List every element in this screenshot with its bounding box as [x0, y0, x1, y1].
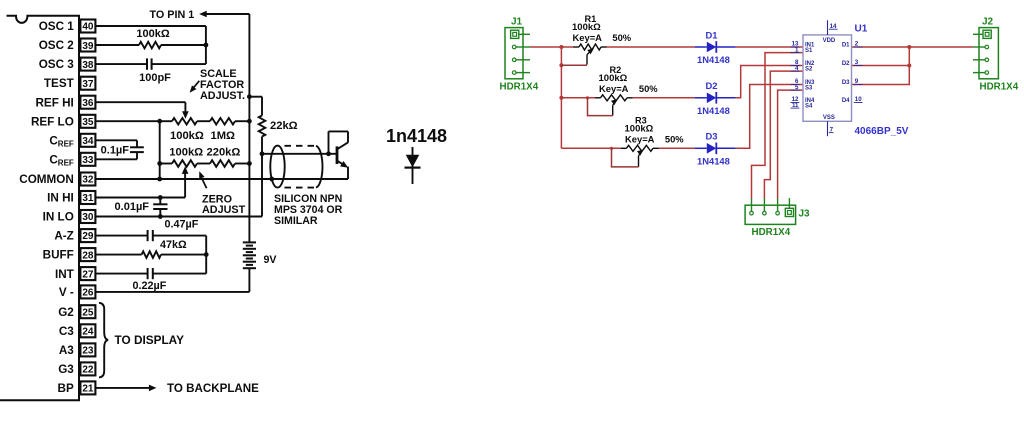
wire U1 D3 output riser [852, 66, 910, 85]
pin 21 box and label BP [58, 381, 96, 395]
svg-text:BP: BP [58, 382, 74, 395]
svg-text:4066BP_5V: 4066BP_5V [855, 126, 909, 137]
svg-text:A-Z: A-Z [54, 230, 73, 243]
svg-text:C3: C3 [59, 325, 74, 338]
svg-text:0.01µF: 0.01µF [115, 201, 150, 213]
junction 22k/cable-top/IN LO [260, 151, 265, 156]
svg-text:0.1µF: 0.1µF [101, 145, 130, 157]
svg-text:28: 28 [82, 250, 94, 261]
potentiometer row 2: 100k + 220k (zero adjust) [160, 146, 250, 166]
wire R1 to D1 [607, 46, 695, 48]
junction COMMON on shield ellipse [269, 177, 274, 182]
svg-text:Key=A 50%: Key=A 50% [573, 32, 632, 43]
svg-text:D4: D4 [842, 98, 850, 104]
wire rail corner to R3 [561, 147, 621, 149]
svg-text:36: 36 [82, 98, 94, 109]
svg-text:D1: D1 [842, 42, 850, 48]
pin 23 box and label A3 [59, 343, 96, 357]
svg-text:TO PIN 1: TO PIN 1 [150, 9, 195, 21]
resistor 100k (between OSC1/OSC2) [96, 28, 206, 48]
svg-text:ADJUST: ADJUST [202, 204, 246, 216]
cable top wire (to transistor base) [262, 153, 337, 155]
connector J2 HDR1X4 [973, 16, 1019, 92]
wire D2 to U1 IN2 [736, 66, 803, 98]
REF HI wiper arrow (scale adjust) [96, 102, 189, 119]
junction rail/pot row1 [247, 119, 252, 124]
IN LO wire to 22k riser [96, 154, 262, 217]
svg-text:0.22µF: 0.22µF [133, 280, 167, 292]
svg-text:Key=A 50%: Key=A 50% [625, 133, 684, 144]
svg-text:A3: A3 [59, 344, 74, 357]
junction rail/22k jog [247, 94, 252, 99]
pin 35 box and label REF LO [31, 115, 95, 129]
svg-text:34: 34 [82, 136, 94, 147]
svg-text:VSS: VSS [823, 115, 835, 121]
svg-text:1n4148: 1n4148 [386, 126, 447, 146]
red rail J1 node [560, 47, 562, 148]
pin 24 box and label C3 [59, 324, 96, 338]
svg-text:D2: D2 [842, 61, 850, 67]
pin 22 box and label G3 [58, 362, 95, 376]
TO DISPLAY brace [99, 303, 184, 378]
junction left column/row2 [157, 161, 162, 166]
svg-text:40: 40 [82, 22, 94, 33]
svg-text:G3: G3 [58, 363, 74, 376]
pin 39 box and label OSC 2 [39, 39, 96, 53]
svg-text:0.47µF: 0.47µF [165, 218, 199, 230]
wire D3 to U1 IN3 [736, 85, 803, 149]
wire U1 S2 to J3 pin2 [764, 71, 803, 198]
svg-text:IN HI: IN HI [47, 192, 74, 205]
svg-text:35: 35 [82, 117, 94, 128]
svg-text:G2: G2 [58, 306, 74, 319]
TO PIN 1 arrow and label [150, 9, 250, 21]
capacitor 0.01uF (IN HI / IN LO) [115, 198, 168, 217]
22k branch jog from rail [249, 97, 262, 116]
diode D2 1N4148 [695, 80, 736, 116]
svg-text:REF LO: REF LO [31, 115, 74, 128]
junction 0.01uF bottom [158, 214, 163, 219]
COMMON wire (pin 32 to transistor emitter) [96, 178, 348, 180]
pin 29 box and label A-Z [54, 229, 95, 243]
svg-text:26: 26 [82, 288, 94, 299]
svg-text:30: 30 [82, 212, 94, 223]
junction rail/pot row2 [247, 161, 252, 166]
wire R3 to D3 [659, 147, 695, 149]
svg-text:25: 25 [82, 307, 94, 318]
junction R3 U-wire [610, 147, 613, 150]
svg-text:TO DISPLAY: TO DISPLAY [115, 333, 185, 347]
svg-text:33: 33 [82, 155, 94, 166]
transistor Q1 (diode-connected NPN) [326, 131, 348, 179]
IC body (DVM chip, pins 21-40) [0, 16, 79, 401]
pin 30 box and label IN LO [43, 210, 96, 224]
svg-text:9V: 9V [264, 254, 277, 266]
shield cylinder (dashed) around cable [270, 146, 322, 188]
svg-text:J3: J3 [799, 209, 811, 220]
pin 33 box and label CREF [49, 153, 95, 168]
svg-text:39: 39 [82, 41, 94, 52]
wire U1 D1 output to J2 pin2 [852, 46, 974, 48]
junction R2 U-wire [586, 96, 589, 99]
svg-text:U1: U1 [855, 24, 868, 35]
svg-text:S4: S4 [805, 104, 813, 110]
zero adjust pointer arrow [199, 171, 206, 188]
svg-text:Key=A 50%: Key=A 50% [599, 83, 658, 94]
svg-text:OSC 2: OSC 2 [39, 39, 75, 52]
svg-text:S1: S1 [805, 48, 813, 54]
svg-text:TO BACKPLANE: TO BACKPLANE [167, 382, 259, 395]
wire pin 40 to vertical junction [96, 26, 206, 64]
svg-text:HDR1X4: HDR1X4 [980, 82, 1019, 93]
svg-text:D3: D3 [706, 131, 718, 142]
pin 34 box and label CREF [49, 134, 95, 149]
svg-text:OSC 1: OSC 1 [39, 20, 75, 33]
wire R2 to D2 [633, 97, 695, 99]
wire D1 to U1 IN1 [736, 46, 803, 48]
svg-text:100kΩ: 100kΩ [170, 130, 204, 142]
svg-text:COMMON: COMMON [19, 173, 74, 186]
capacitor 0.47uF (A-Z) [96, 218, 207, 241]
svg-text:REF HI: REF HI [35, 96, 73, 109]
junction D-outputs mid [907, 64, 911, 68]
resistor 47k (BUFF) [96, 239, 207, 258]
pin 37 box and label TEST [44, 77, 95, 91]
svg-text:HDR1X4: HDR1X4 [752, 227, 791, 238]
scale factor pointer arrow [190, 81, 200, 93]
connector J1 HDR1X4 [500, 16, 539, 92]
R3 wiper U-wire [612, 148, 639, 167]
svg-text:1N4148: 1N4148 [697, 105, 730, 116]
svg-text:BUFF: BUFF [43, 249, 74, 262]
svg-text:TEST: TEST [44, 77, 75, 90]
pin 27 box and label INT [55, 267, 95, 281]
svg-text:S3: S3 [805, 86, 813, 92]
connector J3 HDR1X4 [745, 198, 810, 238]
wire rail to R2 [561, 97, 595, 99]
SILICON NPN label [274, 193, 343, 227]
svg-text:100kΩ: 100kΩ [169, 146, 203, 158]
pin 32 box and label COMMON [19, 173, 95, 187]
svg-text:29: 29 [82, 231, 94, 242]
svg-text:ADJUST.: ADJUST. [200, 90, 245, 102]
svg-text:J1: J1 [511, 16, 523, 27]
capacitor 100pF (OSC3) [96, 58, 206, 84]
svg-text:32: 32 [82, 175, 94, 186]
svg-text:22: 22 [82, 365, 94, 376]
junction rail/R1 wiper [559, 63, 563, 67]
svg-text:V -: V - [59, 286, 74, 299]
svg-text:INT: INT [55, 268, 75, 281]
potentiometer R3 100k [621, 115, 684, 167]
R1 wiper U-wire [561, 64, 587, 66]
capacitor 0.1uF (CREF pins 34-33) [96, 140, 144, 159]
svg-text:21: 21 [82, 384, 94, 395]
junction D-outputs top [907, 45, 911, 49]
pin 26 box and label V - [59, 285, 96, 299]
wire U1 D2 output riser [852, 47, 910, 66]
svg-text:220kΩ: 220kΩ [207, 146, 241, 158]
pin 31 box and label IN HI [47, 191, 95, 205]
junction 0.01uF top [158, 195, 163, 200]
svg-text:23: 23 [82, 346, 94, 357]
svg-text:38: 38 [82, 60, 94, 71]
TO BACKPLANE arrow (BP pin 21) [96, 382, 260, 395]
ZERO ADJUST label [202, 193, 246, 216]
diode D1 1N4148 [695, 29, 736, 65]
wire J1 pin2 to R1 [530, 46, 574, 48]
battery 9V [243, 242, 277, 292]
junction left column/row1 [157, 119, 162, 124]
integrator vertical wire [205, 236, 207, 274]
potentiometer row 1: 100k + 1M (REF LO) [96, 118, 250, 142]
diode 1n4148 symbol (legend) [386, 126, 447, 184]
svg-text:24: 24 [82, 327, 94, 338]
svg-text:100kΩ: 100kΩ [136, 28, 169, 40]
svg-text:1N4148: 1N4148 [697, 54, 730, 65]
junction BUFF [204, 252, 209, 257]
svg-text:1MΩ: 1MΩ [211, 130, 236, 142]
svg-text:D1: D1 [706, 29, 718, 40]
IC U1 4066BP_5V [791, 20, 909, 137]
pin 38 box and label OSC 3 [39, 58, 96, 72]
svg-text:100pF: 100pF [139, 72, 171, 84]
svg-text:47kΩ: 47kΩ [160, 239, 187, 251]
potentiometer R2 100k [595, 65, 658, 116]
potentiometer R1 100k [572, 14, 632, 65]
svg-text:1N4148: 1N4148 [697, 156, 730, 167]
wire U1 S1 to J3 pin1 [752, 53, 804, 199]
svg-text:HDR1X4: HDR1X4 [500, 82, 539, 93]
svg-text:27: 27 [82, 269, 94, 280]
svg-text:J2: J2 [982, 16, 994, 27]
svg-text:D3: D3 [842, 80, 850, 86]
pin 28 box and label BUFF [43, 248, 96, 262]
svg-text:37: 37 [82, 79, 94, 90]
junction pin39/40 [204, 43, 209, 48]
pin 36 box and label REF HI [35, 96, 95, 110]
junction left column/COMMON [157, 177, 162, 182]
svg-text:S2: S2 [805, 67, 813, 73]
R2 wiper U-wire [588, 98, 613, 116]
V+ rail (TO PIN 1 down to battery) [248, 14, 250, 242]
left column wire (row1-row2-COMMON) [159, 121, 161, 179]
capacitor 0.22uF (INT) [96, 268, 207, 292]
junction rail/R2 [559, 96, 563, 100]
ZERO ADJUST wiper arrow (IN HI riser) [96, 166, 189, 197]
svg-text:OSC 3: OSC 3 [39, 58, 75, 71]
svg-text:22kΩ: 22kΩ [270, 120, 298, 132]
V- wire (pin 26 to battery) [96, 291, 250, 293]
junction rail top [559, 45, 563, 49]
resistor 22k (vertical) [259, 116, 298, 154]
SCALE FACTOR ADJUST label [200, 68, 245, 102]
diode D3 1N4148 [695, 131, 736, 167]
svg-text:31: 31 [82, 193, 94, 204]
svg-text:D2: D2 [706, 80, 718, 91]
wire U1 S3 to J3 pin3 [778, 90, 803, 198]
svg-text:VDD: VDD [823, 38, 836, 44]
pin 25 box and label G2 [58, 305, 95, 319]
svg-text:IN LO: IN LO [43, 211, 74, 224]
svg-text:SIMILAR: SIMILAR [274, 215, 318, 227]
pin 40 box and label OSC 1 [39, 20, 96, 34]
